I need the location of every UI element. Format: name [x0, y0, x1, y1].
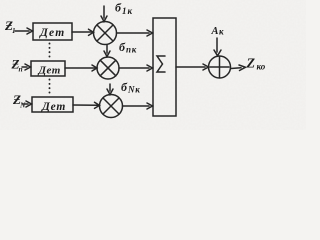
svg-text:б: б: [121, 80, 128, 94]
wire coefficient arrow into M1 top: [101, 6, 107, 22]
wire input arrow row2: [22, 64, 31, 70]
multiplier M3: [100, 95, 123, 118]
node Z1 input label: [4, 18, 16, 35]
node coefficient label vnk: [119, 40, 137, 55]
wire block3 to multiplier: [73, 104, 98, 106]
node output label Zko: [246, 57, 266, 72]
svg-text:Nк: Nк: [127, 85, 141, 95]
wire M1 to sum with arrowhead: [117, 30, 153, 36]
wire block1 to multiplier: [72, 31, 92, 33]
block detector Дет row1: [33, 23, 72, 40]
svg-text:пк: пк: [126, 45, 137, 55]
svg-text:б: б: [119, 40, 126, 54]
svg-text:ко: ко: [257, 62, 266, 72]
dotted ellipsis between row2 and row3: [49, 80, 51, 96]
wire coefficient arrow into M2 top: [104, 45, 110, 57]
svg-text:1к: 1к: [122, 6, 133, 16]
block detector Дет row3: [32, 97, 73, 112]
summation block: [153, 18, 176, 116]
node Zn input label: [11, 57, 23, 74]
svg-text:А: А: [211, 26, 219, 37]
svg-text:Z: Z: [246, 57, 256, 72]
wire input arrow row1: [15, 28, 33, 34]
svg-text:Дет: Дет: [39, 27, 65, 39]
node coefficient label vNk: [121, 80, 141, 95]
node ZN input label: [12, 92, 26, 110]
block detector Дет row2: [31, 61, 65, 76]
paper background: [0, 0, 306, 130]
node coefficient label Ak: [211, 26, 225, 37]
wire coefficient arrow into M3 top: [107, 84, 113, 95]
svg-text:п: п: [19, 65, 23, 74]
wire sum to adder: [176, 64, 209, 70]
sigma symbol: [157, 56, 165, 72]
svg-text:б: б: [115, 1, 122, 15]
wire input arrow row3: [23, 101, 32, 107]
dotted ellipsis between row1 and row2: [49, 44, 51, 60]
svg-text:Дет: Дет: [41, 101, 66, 113]
wire M3 to sum with arrowhead: [123, 103, 153, 109]
multiplier M2: [97, 57, 119, 79]
svg-text:Дет: Дет: [38, 65, 61, 77]
node coefficient label b1k: [115, 1, 133, 17]
wire block2 to multiplier: [65, 67, 96, 69]
adder circle: [209, 56, 231, 78]
wire M2 to sum with arrowhead: [119, 65, 153, 71]
multiplier M1: [94, 22, 117, 45]
wire output arrow: [231, 65, 246, 71]
svg-text:N: N: [19, 101, 26, 110]
wire Ak arrow into adder top: [214, 38, 221, 56]
svg-text:к: к: [219, 27, 224, 37]
